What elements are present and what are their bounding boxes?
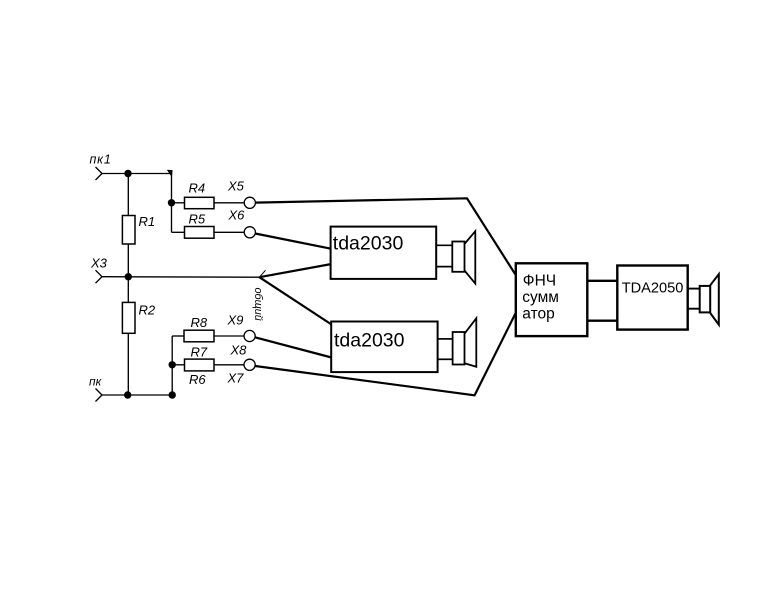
junction dot J1 — [124, 170, 131, 177]
junction dot J5 — [169, 391, 176, 398]
connector X9 — [244, 330, 255, 341]
svg-text:R7: R7 — [191, 345, 208, 360]
speaker LS3 — [700, 274, 719, 325]
svg-text:R4: R4 — [189, 181, 206, 196]
junction dot J2 — [168, 199, 175, 206]
resistor R7 — [185, 359, 215, 371]
wire X6 to U1 — [255, 234, 331, 249]
wire X3 horizontal — [102, 276, 259, 279]
svg-text:X7: X7 — [227, 371, 245, 386]
svg-text:X9: X9 — [227, 313, 244, 328]
speaker LS3 wires — [688, 288, 700, 290]
wire fan to U1 — [259, 264, 331, 277]
connector X5 — [244, 197, 255, 208]
speaker LS1 — [452, 231, 475, 283]
svg-text:R5: R5 — [189, 212, 206, 227]
svg-text:X5: X5 — [227, 179, 245, 194]
wire vertical to R4/R5 — [171, 174, 173, 233]
wire R8 left lead — [172, 335, 184, 337]
speaker LS2 wires — [438, 338, 453, 340]
amplifier U2 tda2030 — [331, 322, 437, 373]
wire summator to U4 bottom — [587, 320, 618, 322]
wire R2 top — [127, 277, 129, 303]
svg-text:tda2030: tda2030 — [333, 233, 404, 255]
wire R1 bottom — [127, 244, 129, 277]
svg-text:TDA2050: TDA2050 — [622, 280, 684, 296]
node common (fan junction) tick — [259, 270, 265, 277]
wire R5 left lead — [172, 231, 185, 233]
svg-text:общий: общий — [252, 288, 264, 321]
junction dot J3 — [125, 273, 132, 280]
svg-text:ФНЧ: ФНЧ — [523, 273, 556, 290]
wire vertical to R8/R7 — [171, 336, 173, 395]
wire pk1 horizontal — [102, 173, 172, 175]
speaker LS1 wires — [436, 244, 452, 246]
wire X8 to summator — [255, 314, 515, 396]
wire R4 left lead — [172, 202, 185, 204]
svg-text:R8: R8 — [191, 315, 208, 330]
resistor R2 — [122, 302, 135, 333]
terminal X3 — [96, 270, 103, 283]
wire X9 to U2 — [255, 337, 332, 357]
resistor R1 — [122, 216, 135, 245]
svg-text:tda2030: tda2030 — [334, 330, 405, 352]
wire fan to U2 — [259, 277, 331, 324]
resistor R8 — [184, 330, 214, 342]
svg-text:X8: X8 — [230, 343, 248, 358]
svg-text:R1: R1 — [139, 214, 156, 229]
corner tick arrow — [167, 170, 173, 178]
wire R1 top — [127, 174, 129, 216]
wire R4 right lead — [214, 202, 244, 204]
wire X5 to summator — [255, 198, 515, 274]
svg-text:атор: атор — [522, 305, 554, 322]
amplifier U1 tda2030 — [331, 227, 437, 279]
svg-text:R6: R6 — [189, 372, 206, 387]
wire R7 left lead — [172, 364, 184, 366]
junction dot J4 — [124, 391, 131, 398]
connector X8 — [244, 359, 255, 370]
svg-text:X6: X6 — [228, 208, 246, 223]
wire R8 right lead — [214, 335, 244, 337]
wire R2 bottom — [127, 333, 129, 395]
terminal пк1 — [96, 167, 103, 180]
connector X6 — [244, 227, 255, 238]
wire R5 right lead — [214, 231, 244, 233]
svg-text:сумм: сумм — [522, 289, 559, 306]
speaker LS2 — [453, 318, 477, 367]
block U3 ФНЧ сумматор — [516, 263, 588, 336]
resistor R4 — [185, 197, 215, 208]
svg-text:X3: X3 — [90, 256, 108, 271]
wire summator to U4 top — [587, 280, 618, 282]
wire R7 right lead — [214, 364, 244, 366]
amplifier U4 TDA2050 — [617, 266, 687, 330]
resistor R5 — [185, 227, 215, 239]
junction dot J6 — [169, 361, 176, 368]
terminal пк — [96, 389, 103, 402]
svg-text:пк1: пк1 — [90, 153, 112, 167]
svg-text:R2: R2 — [139, 303, 156, 318]
svg-text:пк: пк — [89, 375, 103, 389]
wire пк horizontal — [102, 394, 172, 396]
